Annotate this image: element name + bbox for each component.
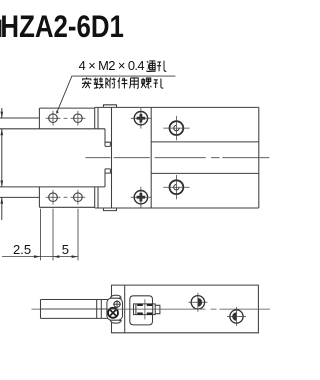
svg-text:2.5: 2.5 — [13, 242, 31, 257]
svg-text:4 × M2 × 0.4: 4 × M2 × 0.4 — [79, 58, 145, 73]
svg-text:5: 5 — [62, 242, 69, 257]
svg-text:HZA2-6D1: HZA2-6D1 — [0, 10, 124, 45]
